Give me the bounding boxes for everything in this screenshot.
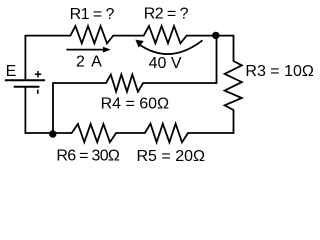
svg-text:2 A: 2 A: [76, 54, 102, 71]
svg-text:40 V: 40 V: [149, 55, 182, 72]
svg-text:R4 = 60Ω: R4 = 60Ω: [101, 95, 169, 112]
svg-text:R5 = 20Ω: R5 = 20Ω: [137, 148, 205, 165]
svg-text:R6 = 30Ω: R6 = 30Ω: [56, 148, 120, 165]
svg-text:R2 = ?: R2 = ?: [144, 6, 189, 23]
svg-text:R1 = ?: R1 = ?: [70, 6, 115, 23]
svg-text:E: E: [6, 63, 17, 80]
svg-text:R3 = 10Ω: R3 = 10Ω: [245, 63, 313, 80]
